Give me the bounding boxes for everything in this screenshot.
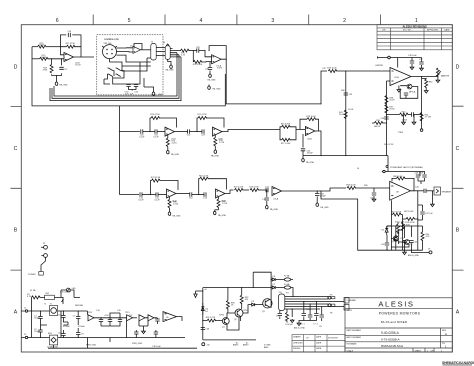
resistor R75 bbox=[181, 49, 190, 52]
svg-text:4700uF: 4700uF bbox=[63, 326, 71, 328]
svg-text:.1uF .1uF: .1uF .1uF bbox=[125, 94, 134, 96]
capacitor C58 bbox=[278, 314, 282, 316]
svg-text:C47 1uF: C47 1uF bbox=[425, 213, 433, 215]
capacitor C33 bbox=[344, 93, 348, 95]
transformer T1 bbox=[50, 306, 58, 316]
svg-text:PA_GND: PA_GND bbox=[208, 78, 217, 81]
capacitor C52 bbox=[409, 241, 413, 243]
varistor RV1 bbox=[45, 295, 55, 299]
resistor R79 feedback bbox=[151, 181, 179, 195]
svg-text:R70 20.0K: R70 20.0K bbox=[405, 222, 415, 224]
svg-text:R74 4.75K: R74 4.75K bbox=[150, 114, 160, 116]
svg-text:POWER AMP LAYOUT (EXTERNAL): POWER AMP LAYOUT (EXTERNAL) bbox=[390, 166, 423, 169]
ground PA_GND input bbox=[55, 81, 58, 86]
svg-text:SHEET: SHEET bbox=[415, 350, 422, 352]
switch SW2 bbox=[116, 68, 121, 77]
svg-text:D: D bbox=[14, 65, 18, 71]
ground PA_GND rowC2 bbox=[214, 146, 216, 149]
diode D6 bbox=[271, 279, 272, 281]
svg-text:PA_GND: PA_GND bbox=[270, 208, 279, 211]
capacitor C22 bbox=[188, 129, 190, 133]
svg-text:.033uF: .033uF bbox=[307, 153, 314, 155]
wire bbox=[142, 194, 156, 196]
capacitor C16b bbox=[108, 320, 112, 322]
wire feedback top bbox=[61, 35, 82, 57]
wire switch wiring bbox=[104, 71, 129, 84]
svg-text:4: 4 bbox=[199, 18, 202, 24]
ground PA_GND rowB2 bbox=[218, 208, 220, 210]
ground arrow bbox=[194, 291, 197, 298]
svg-text:PA_GND: PA_GND bbox=[60, 83, 69, 86]
wire regulator chain bbox=[139, 321, 148, 330]
svg-text:B: B bbox=[456, 228, 460, 234]
svg-text:POWERED MONITORS: POWERED MONITORS bbox=[379, 312, 421, 316]
svg-text:COMPANY: COMPANY bbox=[347, 299, 358, 302]
svg-text:R22 1.00K: R22 1.00K bbox=[234, 187, 244, 189]
fuse F2 bbox=[284, 278, 290, 281]
svg-text:D: D bbox=[456, 65, 460, 71]
capacitor C60 bbox=[302, 314, 306, 316]
zener D4 bbox=[201, 303, 204, 315]
ground PA_GND harness bbox=[170, 64, 173, 69]
extra reference labels bbox=[30, 68, 420, 349]
jack J8 bbox=[394, 238, 397, 241]
wire power lead bbox=[41, 261, 46, 272]
wire reg rails bbox=[203, 288, 271, 340]
svg-text:R72 20.0K: R72 20.0K bbox=[392, 211, 402, 213]
ground rowB3 bbox=[266, 201, 268, 204]
svg-text:2.21K: 2.21K bbox=[219, 142, 225, 144]
svg-text:PA_GND: PA_GND bbox=[306, 161, 315, 164]
svg-text:C36 10uF: C36 10uF bbox=[408, 55, 418, 57]
jack IN-L bbox=[24, 310, 27, 312]
zone tick right rows bbox=[452, 106, 463, 270]
svg-text:4.7K: 4.7K bbox=[426, 236, 431, 238]
svg-text:0.1uF: 0.1uF bbox=[139, 136, 145, 138]
svg-text:MASTER: MASTER bbox=[441, 75, 450, 78]
connector J4 bbox=[165, 46, 170, 60]
svg-text:8A PA and MIXER: 8A PA and MIXER bbox=[381, 320, 407, 324]
ground PA_GND rowC1 bbox=[167, 147, 169, 150]
capacitor C29 bbox=[209, 62, 211, 67]
resistor R66 bbox=[347, 187, 356, 190]
wire U4 out down to rail bbox=[315, 131, 321, 156]
resistor R64 bbox=[422, 78, 427, 81]
jack PA in bbox=[382, 170, 385, 172]
capacitor C20b bbox=[118, 320, 122, 322]
zone tick top 6/5 bbox=[93, 15, 380, 25]
capacitor C24 bbox=[302, 134, 304, 148]
title block bbox=[345, 298, 452, 352]
svg-text:R67 10.0K: R67 10.0K bbox=[404, 211, 414, 213]
svg-text:C18 10uF: C18 10uF bbox=[152, 346, 162, 348]
resistor R81 feedback bbox=[199, 179, 227, 195]
wire bbox=[243, 189, 250, 191]
transistor Q3 big bbox=[263, 299, 272, 308]
svg-text:DATE: DATE bbox=[316, 347, 322, 350]
resistor R37 bbox=[385, 105, 388, 114]
wire staircase 3 bbox=[110, 58, 151, 71]
resistor R24 bbox=[32, 46, 38, 48]
capacitor C5 bbox=[61, 316, 65, 318]
wire harness return loops bbox=[50, 53, 181, 101]
wire node in- bbox=[48, 58, 65, 60]
svg-text:ANLG_GND: ANLG_GND bbox=[408, 254, 420, 257]
svg-text:ISSUED: ISSUED bbox=[293, 348, 301, 350]
resistor R90 bbox=[286, 313, 289, 322]
op-amp U5-B bbox=[216, 189, 226, 198]
fuse F3 bbox=[284, 286, 290, 289]
svg-text:4.7K: 4.7K bbox=[181, 55, 186, 57]
svg-text:R26 1.00K: R26 1.00K bbox=[193, 64, 203, 66]
wire bbox=[158, 194, 167, 196]
op-amp U9 bbox=[163, 312, 177, 322]
op-amp U4-A bbox=[305, 127, 315, 136]
ground U7 bbox=[398, 86, 400, 89]
capacitor C30 bbox=[126, 85, 130, 87]
svg-text:475K: 475K bbox=[43, 70, 48, 72]
svg-text:TL072: TL072 bbox=[217, 67, 224, 69]
transistor Q7 bbox=[393, 236, 398, 241]
svg-text:MPS-A: MPS-A bbox=[409, 91, 416, 94]
resistor R80 bbox=[169, 197, 171, 199]
resistor R76 bbox=[167, 135, 169, 138]
svg-text:CHECKED: CHECKED bbox=[293, 342, 303, 344]
wire PA out bbox=[414, 190, 424, 192]
ground psu mid bbox=[142, 330, 146, 334]
svg-text:6: 6 bbox=[56, 18, 59, 24]
svg-text:F1 2A: F1 2A bbox=[30, 289, 36, 292]
ground rowC3 bbox=[302, 151, 304, 157]
transistor Q6 bbox=[407, 84, 412, 89]
svg-text:PA_GND: PA_GND bbox=[173, 215, 182, 218]
svg-text:D2 BRIDGE: D2 BRIDGE bbox=[47, 347, 58, 349]
ground R64 bbox=[424, 90, 428, 94]
svg-text:3: 3 bbox=[271, 18, 274, 24]
resistor R26 bbox=[192, 51, 194, 62]
svg-text:A: A bbox=[445, 332, 447, 336]
svg-text:SPEAKER: SPEAKER bbox=[442, 191, 452, 194]
svg-text:PA_GND: PA_GND bbox=[321, 206, 330, 209]
svg-text:750pF: 750pF bbox=[34, 331, 40, 333]
svg-text:20.0K: 20.0K bbox=[389, 109, 395, 111]
capacitor C16 down bbox=[266, 190, 268, 197]
svg-text:2: 2 bbox=[343, 18, 346, 24]
resistor R82 bbox=[218, 197, 220, 199]
resistor R17 bbox=[280, 130, 305, 140]
svg-text:TIP32: TIP32 bbox=[243, 310, 249, 312]
transistor Q2 bbox=[235, 309, 243, 317]
op-amp U8 power bbox=[390, 181, 414, 200]
resistor R70 bbox=[406, 218, 415, 221]
capacitor C46 bbox=[424, 189, 426, 193]
svg-text:AMP2: AMP2 bbox=[243, 344, 249, 347]
svg-text:ALESIS: ALESIS bbox=[378, 300, 414, 309]
wire PA verticals bbox=[391, 191, 417, 250]
capacitor C37 bbox=[419, 62, 423, 64]
svg-text:DATE: DATE bbox=[316, 341, 322, 344]
svg-text:LED: LED bbox=[72, 288, 76, 290]
op-amp U3-B bbox=[213, 127, 223, 136]
resistor R18 feedback bbox=[300, 119, 319, 131]
wire bbox=[157, 131, 165, 133]
svg-text:1: 1 bbox=[415, 18, 418, 24]
wire caps bbox=[129, 62, 141, 91]
svg-text:10.0K: 10.0K bbox=[41, 57, 47, 59]
wire bbox=[426, 190, 434, 192]
resistor R1 fuse row bbox=[32, 296, 41, 299]
wire feed vertical bbox=[253, 272, 271, 308]
jack AC2 bbox=[44, 254, 48, 258]
regulator VR4 bbox=[127, 315, 133, 321]
ground PA_GND pod return bbox=[208, 85, 211, 90]
control pod dashed box bbox=[97, 35, 163, 95]
wire vca vertical bbox=[345, 71, 347, 156]
op-amp U6 bbox=[272, 187, 282, 196]
svg-text:2.00K: 2.00K bbox=[402, 120, 408, 122]
wire staircase 1 bbox=[141, 49, 151, 51]
svg-text:8NPAA01B.SCH: 8NPAA01B.SCH bbox=[381, 344, 403, 348]
ground ANLG_GND cluster bbox=[297, 322, 301, 326]
svg-text:4700uF: 4700uF bbox=[78, 326, 86, 328]
revision table bbox=[377, 25, 452, 50]
wire bbox=[176, 193, 190, 195]
wire op-amp out bbox=[74, 56, 95, 58]
svg-text:APPROVED: APPROVED bbox=[427, 29, 439, 32]
capacitor C8 bbox=[76, 333, 80, 335]
resistor R28 bbox=[50, 64, 53, 73]
svg-text:TL072: TL072 bbox=[75, 65, 82, 67]
svg-text:ECO NO.: ECO NO. bbox=[403, 30, 412, 32]
svg-text:0.1uF: 0.1uF bbox=[154, 199, 160, 201]
svg-text:ASSY NUMBER: ASSY NUMBER bbox=[347, 336, 362, 339]
svg-text:R17 1.00K: R17 1.00K bbox=[281, 143, 291, 145]
wire vertical bus bbox=[119, 106, 121, 195]
capacitor C21 bbox=[155, 129, 157, 133]
svg-text:R77 4.75K: R77 4.75K bbox=[197, 114, 207, 116]
svg-text:PA_GND: PA_GND bbox=[211, 155, 220, 158]
resistor R22 bbox=[235, 189, 244, 192]
svg-text:09/13/1997: 09/13/1997 bbox=[328, 338, 339, 340]
svg-text:VR1 10K: VR1 10K bbox=[104, 43, 113, 45]
capacitor C1 bbox=[38, 317, 42, 319]
capacitor C14 bbox=[204, 192, 206, 196]
svg-text:R68 20.0K: R68 20.0K bbox=[393, 176, 403, 178]
resistor R29 bbox=[328, 70, 337, 73]
wire bbox=[175, 131, 188, 133]
svg-text:R27 47.5K: R27 47.5K bbox=[66, 43, 76, 45]
capacitor C63 bbox=[320, 315, 324, 317]
svg-text:U7-A: U7-A bbox=[394, 76, 399, 79]
resistor R27 bbox=[66, 45, 75, 48]
svg-text:2.21K: 2.21K bbox=[173, 204, 179, 206]
resistor R78 bbox=[214, 135, 216, 138]
resistor R81b bbox=[207, 319, 216, 322]
ground cluster2 bbox=[290, 319, 294, 323]
jack J9 out bbox=[429, 251, 432, 254]
svg-text:TRIM: TRIM bbox=[398, 132, 403, 134]
jack AC1 bbox=[44, 245, 48, 249]
capacitor C44 bbox=[416, 175, 420, 177]
wire minus network bbox=[52, 59, 62, 81]
svg-text:5: 5 bbox=[128, 18, 131, 24]
capacitor C27 bbox=[59, 67, 63, 69]
wire row C to stage3 bbox=[222, 130, 280, 132]
svg-text:U4-A: U4-A bbox=[307, 138, 312, 141]
wire to op-amp bbox=[199, 51, 212, 57]
op-amp U1 pod buffer bbox=[133, 46, 141, 53]
ground C36 bbox=[410, 66, 414, 70]
ground ANLG_GND zobel bbox=[403, 251, 407, 255]
wire drops bbox=[280, 297, 322, 318]
capacitor C47 bbox=[420, 212, 424, 214]
resistor R73 bbox=[402, 222, 405, 231]
ground limiter4 bbox=[412, 121, 416, 125]
wire row C feed bbox=[120, 131, 140, 133]
resistor R44 bbox=[420, 113, 423, 122]
diode D5 bbox=[252, 303, 255, 306]
svg-text:PART NUMBER: PART NUMBER bbox=[347, 329, 362, 332]
capacitor C61 bbox=[308, 315, 312, 317]
regulator VR3 bbox=[88, 315, 94, 321]
capacitor C26 bbox=[68, 33, 70, 37]
svg-text:PA_GND: PA_GND bbox=[213, 88, 222, 91]
svg-text:9-79-0255B-A: 9-79-0255B-A bbox=[381, 338, 400, 342]
capacitor C9 bbox=[99, 320, 103, 322]
wire minus bus bbox=[386, 81, 390, 156]
wire psu mid verticals bbox=[63, 321, 126, 348]
resistor R16 bbox=[280, 127, 296, 130]
ground PA_GND rowB1 bbox=[169, 208, 171, 211]
svg-text:R16 6.81K: R16 6.81K bbox=[281, 123, 291, 125]
op-amp U7 bbox=[390, 68, 413, 86]
ground rowB4 bbox=[316, 197, 318, 202]
jack TP2 bbox=[420, 129, 423, 132]
wire bbox=[355, 187, 390, 189]
svg-text:LTR: LTR bbox=[382, 30, 386, 32]
wire to op-amp bbox=[61, 47, 65, 55]
ground master bbox=[436, 79, 440, 83]
svg-text:F2 4A: F2 4A bbox=[284, 275, 290, 278]
svg-text:RED/WH: RED/WH bbox=[75, 305, 84, 307]
drawn/checked block bbox=[292, 335, 345, 353]
capacitor C31 bbox=[134, 85, 138, 87]
connector J11 bbox=[279, 294, 285, 311]
svg-text:+15V: +15V bbox=[104, 315, 109, 317]
resistor R23 bbox=[250, 189, 259, 192]
svg-text:LIMITER: LIMITER bbox=[375, 65, 383, 67]
wire bbox=[189, 50, 197, 52]
wire psu rails bbox=[48, 311, 197, 348]
wire to limiter bbox=[336, 70, 390, 72]
wire limiter top bbox=[390, 58, 421, 68]
svg-text:C: C bbox=[456, 146, 460, 152]
op-amp U2-B bbox=[64, 53, 74, 62]
svg-text:R79 22.6K: R79 22.6K bbox=[151, 177, 161, 179]
svg-text:2.21K: 2.21K bbox=[172, 143, 178, 145]
svg-text:C4 47pF: C4 47pF bbox=[285, 324, 293, 326]
ground C37 bbox=[420, 67, 424, 71]
connector pins right bbox=[328, 296, 331, 299]
svg-text:10.0K: 10.0K bbox=[39, 45, 45, 47]
svg-text:20.0K: 20.0K bbox=[339, 114, 345, 116]
wire row B feed bbox=[120, 194, 139, 196]
svg-text:SCALE: SCALE bbox=[347, 349, 354, 352]
wire J4 pins bbox=[170, 49, 181, 57]
svg-text:C: C bbox=[14, 146, 18, 152]
svg-text:10.0K: 10.0K bbox=[348, 109, 354, 111]
diode D7 bbox=[272, 286, 275, 289]
jack TP1 bbox=[378, 56, 388, 58]
LED D1 bbox=[66, 288, 70, 292]
capacitor C36 bbox=[410, 61, 414, 63]
svg-text:R29 10.0K: R29 10.0K bbox=[327, 68, 337, 70]
capacitor C50 bbox=[386, 235, 388, 242]
capacitor C41 bbox=[412, 112, 414, 116]
wire node in+ bbox=[46, 46, 61, 48]
resistor R38 bbox=[385, 96, 388, 105]
capacitor C28 bbox=[197, 48, 199, 52]
resistor R39 bbox=[374, 122, 383, 125]
resistor R25 bbox=[32, 58, 40, 60]
capacitor C11 bbox=[156, 192, 158, 196]
svg-text:20.0K: 20.0K bbox=[389, 100, 395, 102]
svg-text:750pF: 750pF bbox=[34, 318, 40, 320]
wire out bbox=[413, 73, 438, 129]
wire J3 to J4 bbox=[156, 48, 165, 56]
svg-text:PA_GND: PA_GND bbox=[171, 153, 180, 156]
jack J10 bbox=[202, 343, 205, 346]
svg-text:DRAWN: DRAWN bbox=[293, 336, 301, 339]
capacitor C62 bbox=[314, 314, 318, 316]
svg-text:C44 47uF: C44 47uF bbox=[415, 173, 425, 175]
connector J3 bbox=[151, 44, 156, 61]
wire rail row C bbox=[303, 156, 388, 172]
op-amp U3-A bbox=[165, 127, 175, 136]
switch SW1 bbox=[108, 68, 113, 77]
capacitor C19 bbox=[154, 332, 158, 334]
capacitor C17 bbox=[155, 319, 159, 321]
regulator VR6 bbox=[148, 315, 154, 321]
wire reg out bbox=[101, 313, 127, 318]
resistor R77 feedback bbox=[197, 118, 224, 132]
wire psu top row bbox=[32, 297, 81, 311]
svg-text:B: B bbox=[14, 228, 18, 234]
svg-text:DATE: DATE bbox=[444, 29, 450, 32]
svg-text:PA_GND: PA_GND bbox=[218, 214, 227, 217]
capacitor C13 bbox=[316, 191, 318, 193]
wire staircase 2 bbox=[117, 55, 151, 62]
svg-text:0.1uF: 0.1uF bbox=[138, 199, 144, 201]
capacitor C20 bbox=[141, 129, 143, 133]
capacitor C6 bbox=[61, 334, 65, 336]
capacitor C45 bbox=[422, 175, 426, 177]
svg-text:C15 4700uF: C15 4700uF bbox=[60, 292, 72, 294]
wire PA bottom bbox=[399, 229, 403, 231]
svg-text:CONTROL POD: CONTROL POD bbox=[104, 39, 119, 41]
svg-text:ALESIS REVISIONS: ALESIS REVISIONS bbox=[402, 25, 426, 29]
capacitor C12 bbox=[190, 192, 192, 196]
wire bbox=[143, 131, 155, 133]
svg-text:4.7 1W: 4.7 1W bbox=[425, 117, 431, 119]
op-amp U5-A bbox=[167, 189, 177, 198]
potentiometer VOLUME bbox=[103, 45, 117, 59]
svg-text:R23 4.75K: R23 4.75K bbox=[249, 187, 259, 189]
diode D3 bbox=[385, 226, 391, 235]
transistor Q1 bbox=[222, 318, 229, 325]
resistor R82b bbox=[240, 295, 243, 304]
resistor R68 feedback bbox=[392, 178, 414, 190]
